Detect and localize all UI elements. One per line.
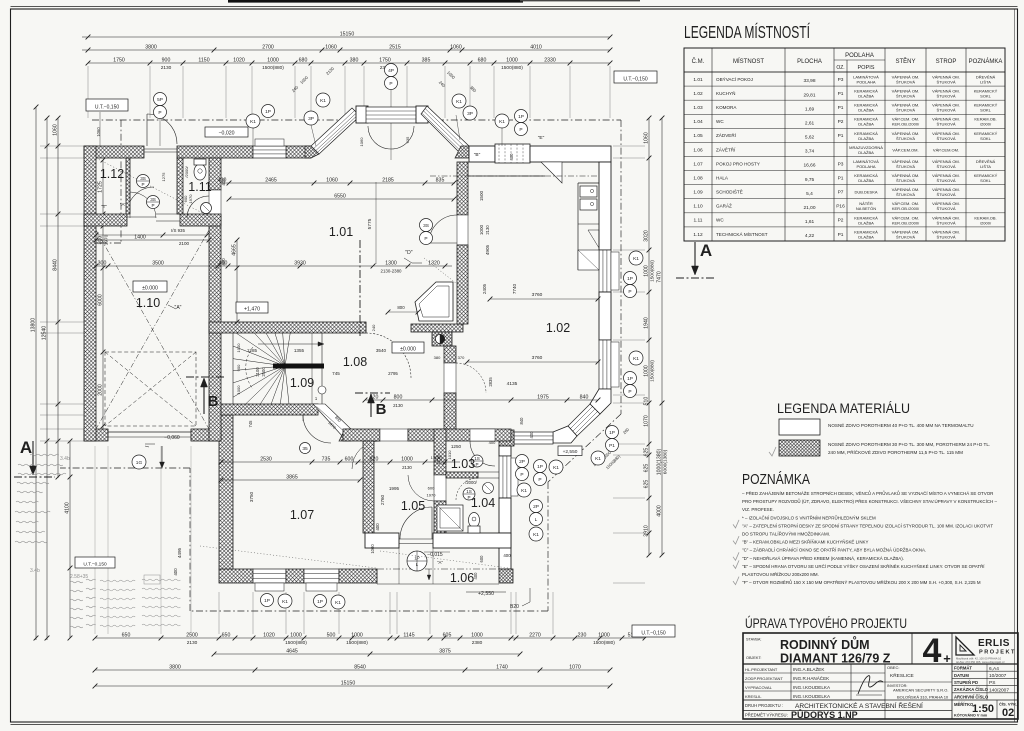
svg-text:ŠTUKOVÁ: ŠTUKOVÁ <box>936 79 955 84</box>
svg-text:ŠTUKOVÁ: ŠTUKOVÁ <box>896 178 915 183</box>
svg-text:650: 650 <box>222 632 231 638</box>
svg-text:ŠTUKOVÁ: ŠTUKOVÁ <box>896 79 915 84</box>
vent block in kitchen top wall <box>495 144 530 163</box>
fireplace wall + chimney <box>411 324 463 332</box>
svg-text:"A": "A" <box>437 560 443 565</box>
svg-text:P7: P7 <box>838 190 844 196</box>
svg-text:16,66: 16,66 <box>803 163 815 169</box>
svg-text:400: 400 <box>221 258 226 266</box>
svg-text:2465: 2465 <box>265 177 277 183</box>
svg-text:1750: 1750 <box>379 57 391 63</box>
svg-text:1500(880): 1500(880) <box>650 360 656 382</box>
svg-text:1970: 1970 <box>427 493 437 498</box>
svg-text:P3: P3 <box>838 77 844 83</box>
svg-text:PODLAHA: PODLAHA <box>856 164 875 169</box>
svg-text:1500(880): 1500(880) <box>285 640 307 646</box>
section B dash line <box>359 240 361 336</box>
signature <box>858 676 883 694</box>
svg-text:P1: P1 <box>609 443 615 449</box>
svg-text:5P: 5P <box>157 97 163 103</box>
svg-text:tel./fax: 272 650 005, www.erl: tel./fax: 272 650 005, www.erlisprojekt.… <box>956 660 1005 664</box>
svg-text:240: 240 <box>371 324 376 331</box>
svg-text:2760: 2760 <box>380 494 385 505</box>
bottom bay window strip <box>514 432 553 444</box>
svg-text:1995: 1995 <box>389 486 400 491</box>
svg-text:K1: K1 <box>282 599 288 605</box>
svg-text:ARCHIVNÍ ČÍSLO: ARCHIVNÍ ČÍSLO <box>954 694 989 699</box>
top dimension rows <box>82 36 610 38</box>
svg-text:STUPEŇ PD: STUPEŇ PD <box>954 680 978 685</box>
svg-text:5,4: 5,4 <box>806 191 813 197</box>
svg-text:KRESLIL: KRESLIL <box>745 694 762 699</box>
svg-text:FORMÁT: FORMÁT <box>954 666 972 671</box>
stairs 1.09 <box>232 333 234 404</box>
svg-text:1000: 1000 <box>236 385 241 395</box>
leader lines from circles <box>159 119 161 146</box>
level label -0,020 <box>205 127 248 137</box>
svg-text:4000: 4000 <box>656 505 662 517</box>
svg-text:840: 840 <box>580 394 589 400</box>
svg-text:NOSNÉ ZDIVO POROTHERM 30 P+D T: NOSNÉ ZDIVO POROTHERM 30 P+D TL. 300 MM,… <box>828 441 990 447</box>
kitchen sink <box>580 186 597 197</box>
svg-text:LIŠTA: LIŠTA <box>980 79 991 84</box>
svg-text:400: 400 <box>221 178 226 186</box>
bay window left diagonal <box>311 108 360 154</box>
svg-text:1P: 1P <box>518 114 524 120</box>
svg-text:1,61: 1,61 <box>805 219 815 225</box>
kitchen right wall (plain 400) <box>599 162 611 250</box>
svg-text:P: P <box>158 110 161 116</box>
svg-text:1060: 1060 <box>359 137 364 147</box>
door 1.11 in dividing wall <box>209 190 221 215</box>
svg-text:745: 745 <box>332 371 340 376</box>
svg-text:ING.I.KOUDELKA: ING.I.KOUDELKA <box>793 694 831 699</box>
svg-text:625: 625 <box>643 464 649 473</box>
svg-text:4905: 4905 <box>485 244 490 255</box>
svg-text:1.08: 1.08 <box>693 175 703 181</box>
svg-text:ŠTUKOVÁ: ŠTUKOVÁ <box>936 192 955 197</box>
garage door opening <box>108 431 191 433</box>
svg-text:2795: 2795 <box>388 371 398 376</box>
svg-text:PŘEDMĚT VÝKRESU:: PŘEDMĚT VÝKRESU: <box>745 713 788 718</box>
level +2,550 right <box>558 446 582 456</box>
marker circles 1.03/1.04 <box>471 455 483 467</box>
level label U.T. top-right <box>614 71 657 83</box>
svg-text:2835: 2835 <box>488 377 493 387</box>
svg-text:5,62: 5,62 <box>805 135 815 141</box>
svg-text:P: P <box>538 477 541 483</box>
svg-text:STĚNY: STĚNY <box>895 57 915 65</box>
svg-text:* – IZOLAČNÍ DVOJSKLO S VNITŘN: * – IZOLAČNÍ DVOJSKLO S VNITŘNÍM NEPRŮHL… <box>742 513 876 520</box>
svg-text:KER.OB./2000/: KER.OB./2000/ <box>892 220 920 225</box>
svg-text:3.4b: 3.4b <box>60 456 70 462</box>
svg-text:800: 800 <box>397 305 405 310</box>
svg-text:400: 400 <box>503 553 511 558</box>
svg-text:ČÍS. VÝK.: ČÍS. VÝK. <box>999 702 1017 707</box>
svg-text:DLAŽBA: DLAŽBA <box>858 108 874 113</box>
svg-text:DLAŽBA: DLAŽBA <box>858 150 874 155</box>
level label U.T. top-left <box>86 99 128 111</box>
svg-text:1000: 1000 <box>479 224 484 235</box>
svg-text:4645: 4645 <box>286 648 298 654</box>
porch edge 1.06 <box>377 568 511 570</box>
svg-text:LEGENDA MATERIÁLU: LEGENDA MATERIÁLU <box>777 401 910 416</box>
svg-text:1000: 1000 <box>506 57 518 63</box>
title block left rows <box>743 672 885 674</box>
svg-text:I/S 935: I/S 935 <box>171 228 185 233</box>
svg-text:DATUM: DATUM <box>954 673 969 678</box>
svg-text:PLOCHA: PLOCHA <box>797 59 822 65</box>
svg-text:PROJEKT: PROJEKT <box>979 650 1016 656</box>
svg-text:6550: 6550 <box>334 193 346 199</box>
svg-text:K1: K1 <box>250 119 256 125</box>
stair railing bar <box>273 364 324 369</box>
svg-text:1000: 1000 <box>598 632 610 638</box>
svg-text:29,81: 29,81 <box>803 92 815 98</box>
svg-text:"D" – NEHOŘLAVÁ ÚPRAVA PŘED KR: "D" – NEHOŘLAVÁ ÚPRAVA PŘED KRBEM (KAMEN… <box>742 554 904 561</box>
svg-text:P: P <box>520 472 523 478</box>
svg-text:1060: 1060 <box>325 44 337 50</box>
svg-text:BOLOŇSKÁ 310, PRAHA 10: BOLOŇSKÁ 310, PRAHA 10 <box>897 695 949 700</box>
svg-text:1000: 1000 <box>236 343 241 353</box>
svg-text:/2000/: /2000/ <box>184 166 189 178</box>
svg-text:1000: 1000 <box>643 365 649 377</box>
wall between 1.12 and corridor <box>126 158 130 214</box>
svg-text:ZODP.PROJEKTANT: ZODP.PROJEKTANT <box>745 676 783 681</box>
svg-text:2500: 2500 <box>261 367 266 377</box>
svg-text:2130-2380: 2130-2380 <box>381 269 403 274</box>
svg-text:POKOJ PRO HOSTY: POKOJ PRO HOSTY <box>716 161 760 166</box>
stair walking line <box>246 347 253 389</box>
SE diagonal window <box>568 404 600 436</box>
exterior wall: top of garage block (hatched) <box>84 146 144 158</box>
svg-text:1010: 1010 <box>436 455 441 465</box>
svg-text:VÁP.CEM.OM.: VÁP.CEM.OM. <box>933 147 959 152</box>
svg-text:A: A <box>700 241 712 260</box>
svg-text:1500: 1500 <box>479 190 484 201</box>
svg-text:1.04: 1.04 <box>693 119 703 125</box>
svg-text:1355: 1355 <box>294 348 305 353</box>
svg-text:K1: K1 <box>633 356 639 362</box>
wall 1.07 / 1.05 <box>363 441 374 533</box>
svg-text:/2000/: /2000/ <box>980 122 992 127</box>
svg-text:1000: 1000 <box>370 544 375 554</box>
svg-text:2130: 2130 <box>187 640 198 646</box>
svg-text:1060: 1060 <box>643 132 649 144</box>
svg-text:DLAŽBA: DLAŽBA <box>858 178 874 183</box>
1.04 shower <box>437 505 463 531</box>
svg-text:3760: 3760 <box>532 355 543 361</box>
svg-text:1.05: 1.05 <box>693 133 703 139</box>
svg-text:"B" – KERAM.OBKLAD MEZI SKŘÍŇK: "B" – KERAM.OBKLAD MEZI SKŘÍŇKAMI KUCHYŇ… <box>742 538 868 545</box>
svg-text:600: 600 <box>428 486 435 491</box>
svg-text:B: B <box>376 401 387 418</box>
section B marker 1 <box>186 376 224 378</box>
svg-text:1300: 1300 <box>385 260 397 266</box>
svg-text:K1: K1 <box>320 98 326 104</box>
svg-text:NOSNÉ ZDIVO POROTHERM 40 P+D T: NOSNÉ ZDIVO POROTHERM 40 P+D TL. 400 MM … <box>828 422 974 428</box>
svg-text:ŠTUKOVÁ: ŠTUKOVÁ <box>936 178 955 183</box>
svg-text:2100: 2100 <box>255 367 260 377</box>
svg-text:300: 300 <box>98 260 107 266</box>
svg-text:3020: 3020 <box>643 230 649 242</box>
garage / house dividing wall <box>209 158 221 190</box>
svg-text:900: 900 <box>236 364 241 371</box>
svg-text:HALA: HALA <box>716 175 729 180</box>
svg-text:1070: 1070 <box>643 415 649 427</box>
svg-text:K1: K1 <box>499 119 505 125</box>
svg-text:3930: 3930 <box>294 260 306 266</box>
svg-text:1975: 1975 <box>537 394 549 400</box>
svg-text:3750: 3750 <box>249 491 254 502</box>
svg-text:1020: 1020 <box>233 57 245 63</box>
svg-text:3S: 3S <box>423 223 429 229</box>
svg-text:8540: 8540 <box>354 664 366 670</box>
svg-text:2130: 2130 <box>161 65 172 71</box>
svg-text:ERLIS: ERLIS <box>978 638 1010 649</box>
svg-text:380: 380 <box>350 57 359 63</box>
svg-text:370: 370 <box>458 355 465 360</box>
level +1,470 <box>236 302 268 313</box>
svg-text:K1: K1 <box>456 99 462 105</box>
svg-text:4100: 4100 <box>64 502 70 514</box>
svg-text:NA BETÓN: NA BETÓN <box>856 206 876 211</box>
svg-text:1P: 1P <box>627 276 633 282</box>
svg-text:6000(1380): 6000(1380) <box>663 449 669 474</box>
svg-text:1060: 1060 <box>450 44 462 50</box>
svg-text:1.10: 1.10 <box>136 296 160 310</box>
svg-text:MÍSTNOST: MÍSTNOST <box>733 58 764 65</box>
svg-text:1.01: 1.01 <box>329 225 353 239</box>
svg-text:1250: 1250 <box>451 444 462 449</box>
svg-text:745: 745 <box>248 420 253 428</box>
svg-text:"C" – ZÁBRADLÍ CHRÁNÍCÍ OKNO S: "C" – ZÁBRADLÍ CHRÁNÍCÍ OKNO SE OPATŘÍ P… <box>742 546 926 553</box>
svg-text:2700: 2700 <box>262 44 274 50</box>
svg-text:OBJEKT:: OBJEKT: <box>746 656 761 660</box>
svg-text:1.03: 1.03 <box>451 457 475 471</box>
svg-text:1.06: 1.06 <box>450 571 474 585</box>
svg-text:400: 400 <box>173 568 178 576</box>
logo ERLIS <box>951 633 953 664</box>
roof overhang dash-dot outline <box>92 119 621 121</box>
garage door arrow + 1G <box>161 446 163 466</box>
svg-text:1.10: 1.10 <box>693 204 703 210</box>
svg-text:1145: 1145 <box>403 632 414 638</box>
svg-text:L: L <box>535 517 538 523</box>
door 1.05 -> porch <box>399 538 433 540</box>
svg-text:−0,020: −0,020 <box>218 130 234 136</box>
svg-text:"A": "A" <box>120 202 127 207</box>
corner cabinet triangle <box>541 162 562 183</box>
svg-text:AMERICAN SECURITY S.R.O.: AMERICAN SECURITY S.R.O. <box>893 688 949 693</box>
svg-text:1P: 1P <box>537 464 543 470</box>
svg-text:3760: 3760 <box>532 292 543 298</box>
svg-text:35: 35 <box>302 446 308 452</box>
left wall of 1.07 (hatched) <box>219 415 233 569</box>
svg-text:1970: 1970 <box>188 194 193 204</box>
1.12/1.11 marker circles <box>137 175 150 188</box>
svg-text:1150: 1150 <box>198 57 209 63</box>
svg-text:OZ.: OZ. <box>836 65 844 71</box>
title block data column <box>951 664 953 719</box>
svg-text:ZAKÁZKA ČÍSLO: ZAKÁZKA ČÍSLO <box>954 687 989 692</box>
wall 1.01 / kitchen upper <box>457 162 468 215</box>
svg-text:1320: 1320 <box>428 260 440 266</box>
svg-text:1.09: 1.09 <box>693 190 703 196</box>
svg-text:PRO PROSTUPY ROZVODŮ (ÚT, ZDRA: PRO PROSTUPY ROZVODŮ (ÚT, ZDRAVO, ELEKTR… <box>742 497 997 504</box>
svg-text:33,98: 33,98 <box>803 78 815 84</box>
svg-text:1060: 1060 <box>52 124 58 136</box>
stair block top wall <box>209 322 366 333</box>
svg-text:2270: 2270 <box>529 632 541 638</box>
1.11 basin <box>201 203 212 214</box>
svg-text:2185: 2185 <box>382 177 394 183</box>
svg-text:1.07: 1.07 <box>290 508 314 522</box>
SE corner pier <box>590 389 611 414</box>
svg-text:4010: 4010 <box>530 44 542 50</box>
svg-text:TECHNICKÁ MÍSTNOST: TECHNICKÁ MÍSTNOST <box>716 231 768 237</box>
svg-text:ŠTUKOVÁ: ŠTUKOVÁ <box>936 122 955 127</box>
svg-text:400: 400 <box>529 431 534 439</box>
svg-text:1000: 1000 <box>351 632 363 638</box>
svg-text:2P: 2P <box>533 504 539 510</box>
window 1.04 right <box>499 456 511 498</box>
svg-text:3,74: 3,74 <box>805 149 815 155</box>
svg-text:ŠTUKOVÁ: ŠTUKOVÁ <box>896 192 915 197</box>
svg-text:−0,060: −0,060 <box>164 435 180 441</box>
garage bottom wall <box>84 429 108 441</box>
svg-text:GARÁŽ: GARÁŽ <box>716 202 732 209</box>
svg-text:500: 500 <box>327 632 336 638</box>
svg-text:6,A4: 6,A4 <box>989 666 999 672</box>
svg-text:7470: 7470 <box>656 271 662 283</box>
svg-text:/2000/: /2000/ <box>465 480 477 485</box>
svg-text:1500(880): 1500(880) <box>593 640 615 646</box>
svg-text:3P: 3P <box>308 116 314 122</box>
door arc 1.11 <box>187 196 209 218</box>
svg-text:400: 400 <box>375 523 380 531</box>
svg-text:1P: 1P <box>317 599 323 605</box>
svg-text:2530: 2530 <box>260 456 272 462</box>
svg-text:7740: 7740 <box>512 283 517 294</box>
right wall of 1.04/1.06 block <box>499 446 511 456</box>
svg-text:KER.OB./2000/: KER.OB./2000/ <box>892 206 920 211</box>
svg-text:2.58+35: 2.58+35 <box>70 574 88 580</box>
svg-text:ŠTUKOVÁ: ŠTUKOVÁ <box>936 136 955 141</box>
left dimension columns <box>35 107 37 640</box>
svg-text:1000(1380): 1000(1380) <box>656 448 662 475</box>
svg-text:P2: P2 <box>838 218 844 224</box>
svg-text:3910: 3910 <box>643 525 649 537</box>
svg-text:ING.A.BLAŽEK: ING.A.BLAŽEK <box>793 665 825 672</box>
svg-text:1000: 1000 <box>290 632 302 638</box>
svg-text:1P: 1P <box>627 376 633 382</box>
svg-text:3875: 3875 <box>439 648 451 654</box>
svg-text:835: 835 <box>436 177 445 183</box>
svg-text:4P: 4P <box>388 68 394 74</box>
svg-text:K1: K1 <box>533 532 539 538</box>
svg-text:"D": "D" <box>405 250 412 256</box>
bay window right diagonal <box>421 106 469 154</box>
svg-text:2P: 2P <box>519 459 525 465</box>
porch vent circle <box>407 551 427 571</box>
bay window top <box>356 106 368 123</box>
bottom wall main (hatched) <box>219 569 253 583</box>
svg-text:DO STROPU TALÍŘOVÝMI HMOŽDINKA: DO STROPU TALÍŘOVÝMI HMOŽDINKAMI. <box>742 530 830 537</box>
svg-text:4: 4 <box>923 632 942 670</box>
svg-text:P: P <box>475 462 478 467</box>
corner hearth (krb) in 1.01 <box>415 282 453 321</box>
svg-text:POPIS: POPIS <box>857 65 874 71</box>
svg-text:P: P <box>519 127 522 133</box>
door 1.08->1.07 <box>303 415 331 443</box>
svg-text:1G: 1G <box>136 460 143 466</box>
svg-text:1000: 1000 <box>267 57 279 63</box>
svg-text:800: 800 <box>394 394 403 400</box>
svg-text:U.T.−0,150: U.T.−0,150 <box>641 630 666 636</box>
window 1.07 bottom 2 <box>304 569 339 583</box>
svg-text:1.11: 1.11 <box>694 218 703 224</box>
svg-text:4495: 4495 <box>177 547 182 558</box>
svg-text:WC: WC <box>716 218 724 223</box>
svg-text:P1: P1 <box>838 91 844 97</box>
svg-text:STROP: STROP <box>936 59 957 65</box>
marker circles bottom <box>261 594 274 607</box>
svg-text:1.12: 1.12 <box>100 167 124 181</box>
svg-text:ZÁDVEŘÍ: ZÁDVEŘÍ <box>716 131 737 138</box>
svg-text:P1: P1 <box>838 105 844 111</box>
svg-text:1000: 1000 <box>401 456 413 462</box>
svg-text:1000: 1000 <box>471 632 483 638</box>
svg-text:±0.000: ±0.000 <box>400 346 416 352</box>
level ±0.000 garage <box>133 281 167 292</box>
svg-text:1.11: 1.11 <box>188 180 211 194</box>
svg-text:ŠTUKOVÁ: ŠTUKOVÁ <box>896 234 915 239</box>
svg-text:2500: 2500 <box>186 632 198 638</box>
svg-text:13800: 13800 <box>30 318 36 333</box>
stair arrow <box>258 343 318 345</box>
svg-text:8440: 8440 <box>52 259 58 271</box>
svg-text:680: 680 <box>299 57 308 63</box>
garage room diagonals <box>96 230 209 429</box>
SE pier porch <box>499 569 513 583</box>
svg-text:ŠTUKOVÁ: ŠTUKOVÁ <box>936 94 955 99</box>
svg-text:3800: 3800 <box>145 44 157 50</box>
svg-text:P: P <box>389 81 392 87</box>
svg-text:ZÁVĚTŘÍ: ZÁVĚTŘÍ <box>716 145 736 152</box>
svg-text:P: P <box>628 289 631 295</box>
svg-text:1285: 1285 <box>247 348 258 353</box>
title block frame <box>743 633 1018 719</box>
svg-text:520: 520 <box>370 394 379 400</box>
svg-text:P1: P1 <box>838 175 844 181</box>
svg-text:B20: B20 <box>510 604 519 610</box>
dims near top-left block <box>96 239 209 241</box>
svg-text:VYPRACOVAL: VYPRACOVAL <box>745 685 773 690</box>
svg-text:B: B <box>208 393 219 410</box>
svg-text:OBÝVACÍ POKOJ: OBÝVACÍ POKOJ <box>716 76 753 82</box>
left exterior wall (hatched) <box>84 146 96 441</box>
svg-text:1P: 1P <box>265 109 271 115</box>
svg-text:1.06: 1.06 <box>693 147 703 153</box>
title block header <box>743 663 1018 665</box>
scan artifact top band <box>228 0 523 3</box>
svg-text:"F" – OTVOR ROZMĚRŮ 150 X 150: "F" – OTVOR ROZMĚRŮ 150 X 150 MM OPATŘEN… <box>742 578 981 585</box>
svg-text:DLAŽBA: DLAŽBA <box>858 220 874 225</box>
svg-text:3S: 3S <box>140 176 146 181</box>
svg-text:U.T.−0,150: U.T.−0,150 <box>83 561 107 567</box>
svg-text:POZNÁMKA: POZNÁMKA <box>969 58 1003 65</box>
